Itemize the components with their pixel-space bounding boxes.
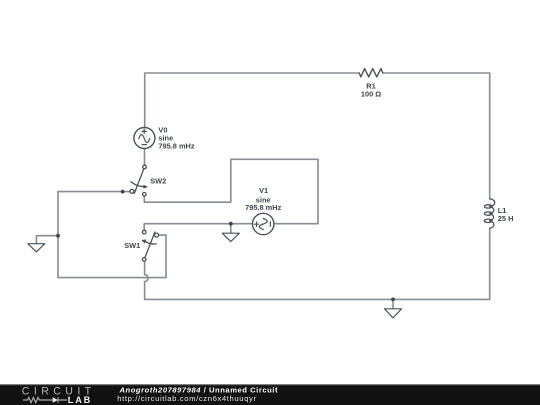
switch SW2 (130, 165, 147, 196)
svg-text:http://circuitlab.com/czn6x4th: http://circuitlab.com/czn6x4thuuqyr (117, 394, 256, 403)
wire: top rail left segment (145, 73, 360, 128)
voltage source V0 (134, 128, 155, 149)
voltage source V1 (253, 213, 274, 234)
svg-text:SW2: SW2 (150, 176, 166, 185)
wire: vertical from bottom rail up to hop (144, 282, 146, 300)
wire: ground 3 stem on bottom rail (392, 299, 394, 308)
wire: ground 1 tap from left rail (36, 236, 58, 244)
switch SW1 (142, 230, 159, 261)
resistor R1 (359, 69, 383, 77)
svg-text:SW1: SW1 (124, 241, 140, 250)
svg-text:V1: V1 (259, 186, 268, 195)
node: junction dot on left rail at ground 1 (56, 234, 60, 238)
wire: left vertical rail (57, 192, 59, 278)
wire: hop vertical up to SW1 bottom throw (144, 261, 146, 274)
wire: V0 bottom to SW2 top throw (144, 149, 146, 166)
wire: SW1 pivot return right and down (159, 235, 166, 278)
CircuitLab logo schematic squiggle (resistor + diode) (23, 397, 67, 403)
svg-text:100 Ω: 100 Ω (361, 90, 381, 99)
inductor L1 (484, 199, 494, 228)
svg-text:LAB: LAB (68, 395, 92, 405)
ground 1 (left) (28, 244, 45, 252)
node: junction dot SW2 common wire (121, 190, 125, 194)
ground 2 (under V1 left wire) (222, 233, 239, 241)
node: junction dot on bottom rail at ground 3 (391, 298, 395, 302)
wire: V1 left terminal to SW1 top throw (144, 224, 252, 231)
svg-text:25 H: 25 H (498, 214, 514, 223)
wire: SW2 bottom throw down and right (144, 159, 318, 223)
wire: right rail below L1 to bottom rail (145, 228, 490, 299)
svg-text:795.8 mHz: 795.8 mHz (245, 203, 281, 212)
wire: hop over bottom-left horizontal wire (145, 275, 149, 282)
node: junction dot on V1 left wire at ground 2 (229, 222, 233, 226)
wire: top rail right segment (383, 73, 490, 199)
wire: SW2 common to left vertical (58, 191, 130, 193)
footer bar (0, 384, 540, 405)
ground 3 (bottom rail) (385, 309, 402, 318)
wire: left loop bottom horizontal (58, 277, 166, 279)
svg-text:795.8 mHz: 795.8 mHz (158, 142, 194, 151)
wire: ground 2 stem under V1 left wire (230, 224, 232, 233)
